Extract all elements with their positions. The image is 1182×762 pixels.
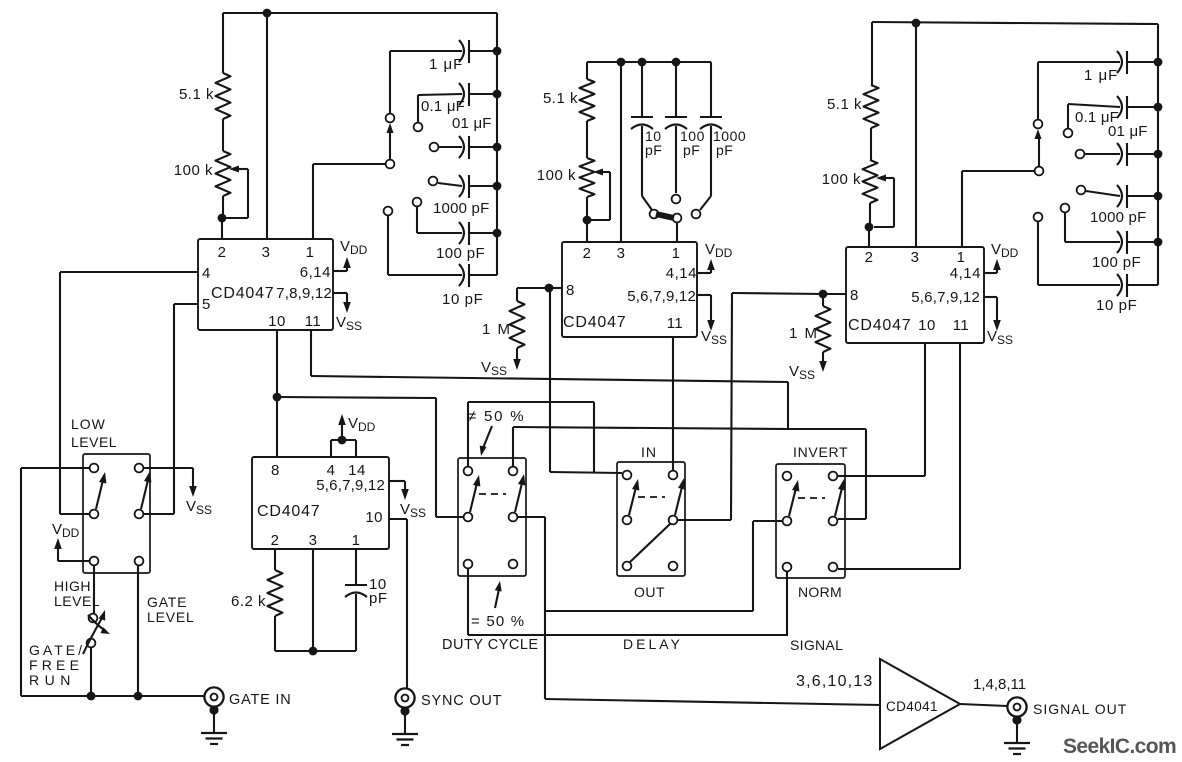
svg-text:SYNC OUT: SYNC OUT [421, 693, 502, 709]
svg-text:LEVEL: LEVEL [147, 609, 195, 625]
svg-text:7,8,9,12: 7,8,9,12 [276, 285, 332, 302]
svg-text:6.2 k: 6.2 k [231, 593, 266, 610]
svg-text:5.1 k: 5.1 k [179, 86, 214, 103]
svg-text:CD4047: CD4047 [211, 285, 275, 302]
svg-text:GATE IN: GATE IN [229, 692, 292, 708]
svg-text:0.1 μF: 0.1 μF [421, 98, 465, 115]
svg-text:FREE: FREE [29, 657, 83, 673]
svg-text:SeekIC.com: SeekIC.com [1063, 735, 1176, 758]
svg-text:10 pF: 10 pF [442, 291, 483, 308]
svg-text:1 M: 1 M [789, 325, 819, 342]
svg-text:100 pF: 100 pF [1092, 254, 1141, 271]
svg-text:10: 10 [918, 317, 936, 334]
svg-text:pF: pF [645, 142, 662, 158]
svg-text:5,6,7,9,12: 5,6,7,9,12 [911, 289, 980, 306]
svg-text:6,14: 6,14 [300, 264, 331, 281]
svg-text:5.1 k: 5.1 k [543, 90, 578, 107]
svg-text:1: 1 [352, 532, 361, 549]
svg-text:SIGNAL: SIGNAL [790, 637, 843, 653]
svg-text:HIGH: HIGH [54, 578, 91, 594]
svg-text:3: 3 [262, 244, 271, 261]
svg-text:11: 11 [305, 313, 322, 330]
svg-text:1,4,8,11: 1,4,8,11 [973, 676, 1026, 693]
svg-text:DELAY: DELAY [623, 636, 683, 652]
svg-text:4: 4 [202, 265, 211, 282]
svg-text:pF: pF [683, 142, 700, 158]
svg-text:OUT: OUT [634, 584, 665, 600]
svg-text:CD4047: CD4047 [563, 314, 627, 331]
svg-text:= 50 %: = 50 % [471, 613, 525, 630]
svg-text:5: 5 [202, 296, 211, 313]
svg-text:CD4041: CD4041 [886, 699, 938, 714]
svg-text:2: 2 [218, 244, 227, 261]
svg-text:1: 1 [957, 249, 966, 266]
svg-text:LEVEL: LEVEL [54, 593, 100, 609]
svg-text:100 k: 100 k [537, 167, 576, 184]
svg-text:5,6,7,9,12: 5,6,7,9,12 [316, 477, 385, 494]
svg-text:≠ 50 %: ≠ 50 % [468, 408, 525, 425]
svg-text:3,6,10,13: 3,6,10,13 [796, 673, 874, 690]
svg-text:1000 pF: 1000 pF [1090, 209, 1146, 226]
svg-text:1 μF: 1 μF [429, 56, 463, 73]
svg-text:4,14: 4,14 [666, 265, 697, 282]
svg-text:1 μF: 1 μF [1084, 67, 1118, 84]
svg-text:RUN: RUN [29, 672, 76, 688]
svg-text:3: 3 [309, 532, 318, 549]
svg-text:4,14: 4,14 [950, 265, 981, 282]
svg-text:3: 3 [617, 245, 626, 262]
svg-text:100 pF: 100 pF [436, 245, 485, 262]
svg-text:01 μF: 01 μF [452, 115, 492, 132]
svg-text:pF: pF [369, 590, 388, 607]
svg-text:SIGNAL OUT: SIGNAL OUT [1033, 701, 1127, 717]
svg-text:10: 10 [268, 313, 286, 330]
svg-text:8: 8 [271, 462, 280, 479]
svg-text:2: 2 [271, 532, 280, 549]
svg-text:5.1 k: 5.1 k [827, 96, 862, 113]
svg-text:GATE: GATE [147, 594, 187, 610]
svg-text:DUTY CYCLE: DUTY CYCLE [442, 637, 539, 653]
svg-text:GATE/: GATE/ [29, 642, 85, 658]
svg-text:LEVEL: LEVEL [71, 434, 117, 450]
svg-text:2: 2 [865, 249, 874, 266]
svg-text:100 k: 100 k [174, 162, 213, 179]
svg-text:1: 1 [672, 245, 681, 262]
svg-text:8: 8 [566, 282, 575, 299]
svg-text:2: 2 [583, 245, 592, 262]
svg-text:10 pF: 10 pF [1096, 297, 1137, 314]
svg-text:5,6,7,9,12: 5,6,7,9,12 [627, 288, 696, 305]
svg-text:CD4047: CD4047 [848, 317, 912, 334]
svg-text:11: 11 [953, 317, 970, 334]
svg-text:INVERT: INVERT [793, 444, 848, 460]
svg-text:CD4047: CD4047 [257, 503, 321, 520]
svg-text:LOW: LOW [71, 416, 106, 432]
svg-text:IN: IN [641, 444, 657, 460]
svg-text:1000 pF: 1000 pF [433, 200, 489, 217]
svg-text:8: 8 [850, 287, 859, 304]
svg-text:11: 11 [667, 315, 684, 332]
svg-text:pF: pF [716, 142, 733, 158]
svg-text:NORM: NORM [798, 584, 842, 600]
svg-text:1: 1 [306, 244, 315, 261]
svg-text:10: 10 [365, 509, 383, 526]
svg-text:3: 3 [911, 249, 920, 266]
svg-text:100 k: 100 k [822, 171, 861, 188]
svg-text:1 M: 1 M [482, 321, 512, 338]
svg-text:01 μF: 01 μF [1108, 123, 1148, 140]
